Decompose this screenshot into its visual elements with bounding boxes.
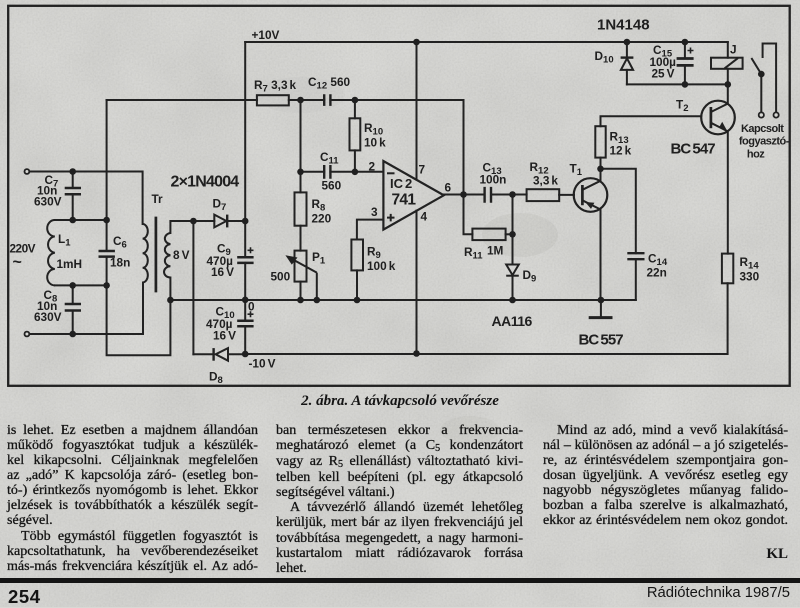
wire output pin6 bbox=[444, 194, 527, 196]
svg-text:fogyasztó-: fogyasztó- bbox=[739, 136, 790, 148]
svg-text:6: 6 bbox=[445, 181, 452, 195]
wire 0 rail bbox=[170, 299, 635, 301]
capacitor C15 bbox=[677, 59, 694, 66]
wire tank to R7 bbox=[107, 99, 464, 101]
svg-text:Kapcsolt: Kapcsolt bbox=[741, 123, 784, 135]
node dot R11 right bbox=[509, 231, 516, 238]
arrowhead P1 wiper bbox=[285, 255, 297, 264]
wire +10V vertical rectifier rail bbox=[244, 42, 246, 354]
node dots 0 rail bbox=[167, 297, 174, 304]
terminal 220V top bbox=[25, 169, 30, 174]
resistor R12 bbox=[527, 189, 560, 201]
caption bbox=[290, 393, 510, 410]
svg-text:1M: 1M bbox=[487, 244, 504, 258]
wire opamp pin7 bbox=[416, 42, 418, 180]
wire T1 collector bbox=[600, 169, 602, 181]
wire D8 leads bbox=[193, 353, 245, 355]
svg-text:560: 560 bbox=[322, 179, 342, 193]
wire R12 to T1 bbox=[559, 194, 574, 196]
svg-text:741: 741 bbox=[392, 192, 417, 209]
diode D8 bbox=[216, 348, 228, 361]
svg-text:AA116: AA116 bbox=[492, 313, 533, 329]
svg-text:18n: 18n bbox=[110, 256, 130, 270]
wire C6 leads bbox=[106, 220, 108, 285]
wire D9 branch bbox=[512, 195, 514, 301]
svg-text:330: 330 bbox=[740, 270, 760, 284]
capacitor C13 bbox=[485, 187, 491, 203]
wire opamp pin4 bbox=[416, 211, 418, 354]
ground symbol bbox=[600, 300, 602, 317]
svg-text:1N4148: 1N4148 bbox=[597, 17, 650, 34]
resistor R9 bbox=[351, 240, 363, 271]
bottom rule bbox=[0, 578, 800, 583]
wire T2 emitter to R14 bbox=[727, 131, 729, 253]
text column 3 bbox=[543, 423, 788, 529]
svg-text:1mH: 1mH bbox=[57, 257, 83, 271]
svg-text:220: 220 bbox=[312, 212, 332, 226]
capacitor C11 bbox=[324, 165, 330, 179]
svg-text:25V: 25V bbox=[652, 67, 675, 81]
svg-text:3: 3 bbox=[371, 205, 378, 219]
wire D7 anode bbox=[193, 220, 214, 222]
diode D9 bbox=[506, 265, 519, 276]
wire D10 leads bbox=[626, 42, 628, 84]
wire -10V rail bbox=[245, 283, 727, 354]
wire pin3 to R9 bbox=[357, 220, 384, 300]
node dots output wire bbox=[460, 191, 467, 198]
wire pin2 C11 bbox=[301, 171, 384, 173]
svg-text:+10V: +10V bbox=[252, 28, 280, 42]
wire R11 right lead bbox=[506, 233, 513, 235]
wire tank ground jog bbox=[107, 285, 171, 355]
potentiometer P1 bbox=[295, 251, 307, 282]
page number 254 bbox=[8, 586, 41, 608]
svg-text:12k: 12k bbox=[610, 144, 632, 158]
resistor R14 bbox=[722, 254, 733, 284]
node dot C8 bottom bbox=[69, 331, 76, 338]
wire +10V top rail bbox=[245, 41, 728, 43]
wire mains top bbox=[27, 172, 143, 225]
transformer Tr core bbox=[155, 217, 158, 293]
svg-text:100n: 100n bbox=[480, 173, 507, 187]
svg-text:hoz: hoz bbox=[747, 149, 765, 161]
svg-text:7: 7 bbox=[419, 163, 426, 177]
text column 1 bbox=[7, 423, 258, 574]
terminal 220V bottom bbox=[25, 332, 30, 337]
svg-text:2×1N4004: 2×1N4004 bbox=[171, 174, 240, 191]
svg-text:0: 0 bbox=[248, 300, 255, 314]
svg-text:4: 4 bbox=[421, 210, 428, 224]
svg-text:J: J bbox=[730, 43, 737, 57]
svg-text:8V: 8V bbox=[173, 248, 190, 262]
wire C7 leads bbox=[72, 172, 74, 221]
schematic border frame bbox=[8, 6, 790, 386]
signature KL bbox=[688, 546, 788, 563]
journal name bbox=[490, 585, 790, 601]
text column 2 bbox=[276, 423, 523, 576]
node dots relay bottom bbox=[682, 81, 689, 88]
node dots tank bottom bbox=[69, 282, 76, 289]
wire R13 bottom bbox=[600, 158, 602, 169]
wire secondary top stub bbox=[170, 221, 193, 233]
svg-text:16V: 16V bbox=[211, 265, 234, 279]
wire C8 leads bbox=[72, 285, 74, 334]
node dot switch blade bbox=[758, 71, 765, 78]
relay switch contact bbox=[763, 44, 777, 113]
transistor Q1 T1 BC557 bbox=[574, 178, 608, 212]
resistor R8 bbox=[295, 192, 307, 225]
diode D10 bbox=[621, 56, 634, 58]
resistor R13 bbox=[595, 126, 605, 157]
op-amp U1 IC2 741 bbox=[383, 161, 443, 230]
relay J coil bbox=[711, 58, 743, 69]
capacitor C9 bbox=[237, 257, 253, 263]
wire relay bottom lead bbox=[727, 69, 729, 85]
inductor L1 bbox=[47, 220, 55, 285]
svg-text:100k: 100k bbox=[367, 259, 396, 273]
wire L1 top bbox=[55, 219, 107, 221]
diode D7 bbox=[214, 215, 226, 228]
wire mains bottom bbox=[27, 283, 143, 335]
wire D7 cathode bbox=[227, 220, 245, 222]
wire secondary to D8 vertical bbox=[192, 221, 194, 354]
svg-text:-10V: -10V bbox=[249, 357, 276, 371]
svg-text:Tr: Tr bbox=[152, 192, 164, 206]
svg-text:BC547: BC547 bbox=[671, 141, 716, 158]
capacitor C14 bbox=[627, 253, 644, 259]
svg-text:630V: 630V bbox=[34, 310, 62, 324]
svg-text:3,3k: 3,3k bbox=[533, 174, 558, 188]
node dot R13 bottom bbox=[597, 166, 604, 173]
transformer Tr secondary winding bbox=[164, 233, 170, 278]
wire relay top lead bbox=[727, 42, 729, 58]
wire secondary bottom stub bbox=[169, 278, 171, 301]
transformer Tr primary winding bbox=[143, 224, 148, 283]
wire tank vertical bbox=[106, 100, 108, 220]
capacitor C6 bbox=[99, 251, 115, 257]
node dots pin2 wire bbox=[297, 169, 304, 176]
capacitor C12 bbox=[324, 94, 330, 106]
resistor R7 bbox=[257, 95, 289, 105]
node dots top rail bbox=[413, 39, 420, 46]
svg-text:630V: 630V bbox=[34, 195, 62, 209]
wire C14 branch bbox=[601, 169, 636, 300]
node dots tank top bbox=[69, 217, 76, 224]
capacitor C8 bbox=[65, 304, 81, 311]
resistor R11 bbox=[472, 229, 505, 241]
svg-text:2: 2 bbox=[369, 160, 376, 174]
wire C15 leads bbox=[684, 42, 686, 84]
node dot C7 top bbox=[69, 168, 76, 175]
wire L1 bottom bbox=[55, 284, 107, 286]
wire feedback bbox=[464, 100, 473, 234]
capacitor C7 bbox=[65, 188, 81, 194]
svg-text:~: ~ bbox=[13, 254, 22, 271]
svg-text:22n: 22n bbox=[647, 266, 667, 280]
svg-text:16V: 16V bbox=[213, 329, 236, 343]
wire R13 top to T2 base bbox=[601, 116, 702, 126]
wire T2 collector to relay bbox=[727, 84, 729, 103]
wire R10 leads bbox=[354, 100, 356, 172]
svg-text:BC557: BC557 bbox=[579, 332, 624, 349]
svg-text:IC2: IC2 bbox=[390, 176, 412, 191]
transistor Q2 T2 BC547 bbox=[701, 101, 735, 135]
resistor R10 bbox=[350, 118, 361, 150]
node dots -10V rail bbox=[242, 351, 249, 358]
svg-text:10k: 10k bbox=[364, 136, 386, 150]
node dots R7 wire bbox=[297, 97, 304, 104]
wire R8 branch vertical bbox=[300, 100, 302, 300]
wire T1 emitter bbox=[600, 210, 602, 301]
node dots secondary D7 bbox=[190, 218, 197, 225]
capacitor C10 bbox=[237, 321, 253, 327]
svg-text:500: 500 bbox=[271, 270, 291, 284]
wire D10 C15 bottom bbox=[627, 83, 728, 85]
